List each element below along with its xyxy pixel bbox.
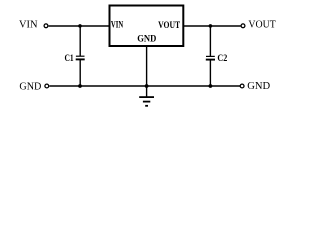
terminal GND right — [240, 84, 244, 88]
wire C2 upper stub — [209, 26, 211, 56]
wire regulator GND pin down to earth — [146, 47, 148, 97]
svg-text:VOUT: VOUT — [248, 20, 276, 31]
wire C2 lower stub — [209, 60, 211, 86]
capacitor C1 — [76, 56, 85, 59]
svg-text:C1: C1 — [65, 53, 75, 63]
capacitor C2 — [206, 56, 215, 59]
junction ground rail / regulator GND — [145, 84, 149, 88]
svg-text:VIN: VIN — [111, 20, 124, 30]
wire C1 upper stub — [79, 26, 81, 56]
wire VIN terminal to regulator input — [49, 25, 109, 27]
terminal GND left — [45, 84, 49, 88]
junction top wire / C2 branch — [209, 24, 213, 28]
junction ground rail / C2 — [209, 84, 213, 88]
svg-text:VIN: VIN — [19, 20, 38, 31]
terminal VIN — [44, 24, 48, 28]
svg-text:VOUT: VOUT — [158, 20, 180, 30]
junction ground rail / C1 — [78, 84, 82, 88]
svg-text:GND: GND — [247, 81, 270, 92]
ground symbol — [139, 97, 154, 106]
wire ground rail — [49, 85, 240, 87]
junction top wire / C1 branch — [78, 24, 82, 28]
svg-text:GND: GND — [137, 34, 157, 44]
svg-text:GND: GND — [19, 81, 41, 92]
terminal VOUT — [241, 24, 245, 28]
wire regulator output to VOUT terminal — [184, 25, 241, 27]
svg-text:C2: C2 — [217, 53, 227, 63]
wire C1 lower stub — [79, 60, 81, 86]
regulator U1 body — [110, 6, 184, 47]
